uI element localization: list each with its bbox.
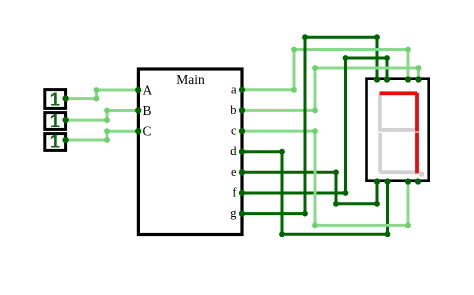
svg-text:C: C [143,124,152,139]
svg-text:A: A [143,82,153,97]
svg-text:g: g [230,206,237,220]
svg-text:c: c [231,124,237,138]
svg-text:e: e [231,165,237,179]
svg-text:d: d [230,144,237,158]
svg-text:B: B [143,103,152,118]
svg-text:a: a [231,82,237,96]
svg-text:Main: Main [176,72,205,87]
svg-text:b: b [230,103,236,117]
